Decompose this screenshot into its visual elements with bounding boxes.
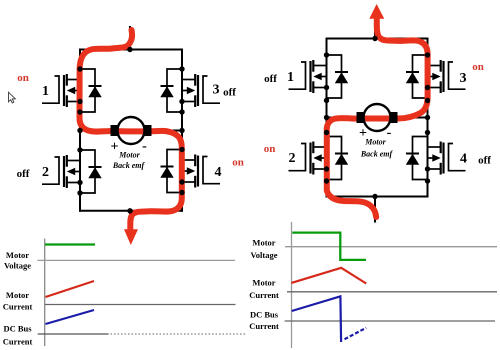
wire: left bridge left leg — [79, 49, 81, 212]
svg-text:DC Bus: DC Bus — [3, 323, 32, 333]
wire: right motor lead left — [327, 117, 359, 119]
svg-text:Back emf: Back emf — [112, 161, 146, 170]
svg-text:Motor: Motor — [364, 138, 386, 147]
trace: left motor voltage (green) — [45, 243, 95, 245]
axis: left plot vertical axis — [44, 239, 46, 346]
svg-text:Current: Current — [3, 302, 33, 312]
wire: left bridge right leg — [181, 49, 183, 212]
baseline: right motor voltage zero line — [285, 246, 497, 248]
svg-text:Motor: Motor — [252, 277, 275, 287]
svg-text:3: 3 — [213, 83, 220, 98]
transistor Q2 (right bridge bottom-left, on) — [289, 137, 349, 180]
svg-text:Motor: Motor — [252, 237, 275, 247]
wire: right bridge bottom rail — [326, 196, 429, 198]
svg-text:on: on — [472, 61, 484, 73]
transistor Q3 (left bridge top-right, off) — [160, 69, 220, 112]
wire: left bridge bottom stub — [129, 211, 131, 224]
svg-text:on: on — [264, 143, 276, 155]
baseline: left motor voltage zero line — [38, 259, 236, 261]
svg-text:on: on — [232, 157, 244, 169]
svg-text:-: - — [387, 126, 392, 141]
svg-text:+: + — [111, 140, 119, 155]
svg-text:2: 2 — [289, 151, 296, 166]
svg-text:2: 2 — [42, 165, 49, 180]
wire: right bridge top rail — [326, 38, 429, 40]
svg-text:Current: Current — [249, 290, 279, 300]
wire: right bridge top supply stub — [374, 22, 376, 39]
wire: left bridge top supply stub — [129, 26, 131, 50]
red arrowhead (right bridge, pointing up) — [369, 4, 384, 19]
svg-text:DC Bus: DC Bus — [250, 310, 279, 320]
svg-text:4: 4 — [215, 165, 222, 180]
svg-text:Motor: Motor — [6, 250, 29, 260]
trace: left dc bus current (blue) — [46, 310, 95, 324]
svg-text:Motor: Motor — [6, 290, 29, 300]
transistor Q3 (right bridge top-right, on) — [406, 55, 467, 98]
transistor Q1 (left bridge top-left, on) — [42, 69, 102, 112]
motor M2 (right bridge) — [357, 104, 398, 131]
transistor Q1 (right bridge top-left, off) — [287, 55, 348, 98]
wire: left bridge bottom rail — [79, 210, 183, 212]
svg-text:off: off — [223, 86, 236, 98]
mouse cursor pointer — [9, 92, 16, 103]
motor M1 (left bridge) — [111, 117, 152, 144]
wire: right bridge bottom stub — [374, 197, 376, 223]
red current path (right bridge, flowing up) — [327, 20, 428, 217]
svg-text:Current: Current — [3, 336, 33, 346]
red arrowhead (left bridge, pointing down) — [124, 229, 138, 245]
svg-text:off: off — [478, 155, 491, 167]
wire: right motor lead right — [396, 117, 428, 119]
red current path (left bridge, flowing down) — [80, 30, 182, 232]
wire: right bridge right leg — [427, 38, 429, 198]
junction dots (right bridge) — [324, 36, 430, 199]
transistor Q2 (left bridge bottom-left, off) — [42, 150, 102, 193]
baseline: left dc bus current zero line (solid) — [38, 333, 109, 335]
wire: left bridge top rail — [79, 49, 183, 51]
svg-text:Back emf: Back emf — [360, 149, 394, 158]
svg-text:Current: Current — [249, 321, 279, 331]
trace: right motor voltage (green, step down) — [292, 233, 366, 260]
svg-text:1: 1 — [287, 70, 294, 85]
svg-text:3: 3 — [460, 71, 467, 86]
svg-text:Voltage: Voltage — [250, 250, 277, 260]
svg-text:off: off — [264, 73, 277, 85]
baseline: left dc bus current zero line (dotted) — [111, 333, 247, 335]
svg-text:-: - — [142, 139, 147, 154]
svg-text:off: off — [17, 168, 30, 180]
trace: right dc bus current continuation (blue dashed) — [345, 328, 367, 339]
baseline: right motor current zero line — [287, 291, 497, 293]
wire: left motor lead left — [80, 130, 112, 132]
transistor Q4 (right bridge bottom-right, off) — [406, 137, 467, 180]
baseline: left motor current zero line — [45, 304, 236, 306]
svg-text:Voltage: Voltage — [4, 260, 31, 270]
junction dots (left bridge) — [77, 47, 184, 214]
wire: right bridge left leg — [326, 38, 328, 198]
svg-text:Motor: Motor — [118, 150, 140, 159]
trace: right motor current (red, ramp up/down) — [291, 268, 366, 284]
transistor Q4 (left bridge bottom-right, on) — [160, 150, 221, 193]
svg-text:4: 4 — [460, 152, 467, 167]
wire: left motor lead right — [150, 130, 182, 132]
axis: right plot vertical axis — [291, 222, 293, 348]
trace: right dc bus current (blue, ramp and drop) — [292, 296, 341, 342]
baseline: right dc bus current zero line — [285, 320, 495, 322]
trace: left motor current (red) — [46, 281, 95, 297]
svg-text:1: 1 — [42, 84, 49, 99]
svg-text:on: on — [17, 72, 29, 84]
